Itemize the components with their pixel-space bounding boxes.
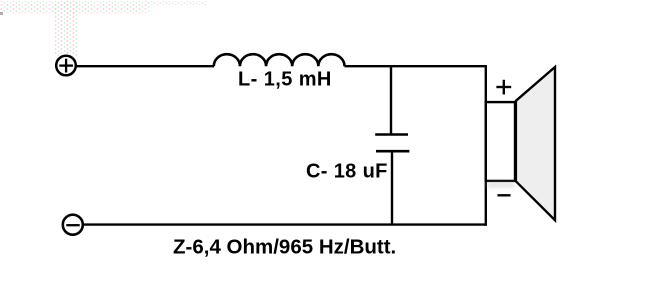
svg-text:C- 18 uF: C- 18 uF <box>306 160 388 182</box>
scan halftone band top <box>0 1 150 13</box>
speaker shadow under body <box>487 183 515 188</box>
wire top left <box>76 65 214 67</box>
svg-text:Z-6,4 Ohm/965 Hz/Butt.: Z-6,4 Ohm/965 Hz/Butt. <box>173 235 396 258</box>
wire capacitor branch upper <box>390 66 392 134</box>
terminal + (positive input) <box>56 56 76 76</box>
wire top right <box>345 65 488 67</box>
terminal - (negative input) <box>63 215 83 235</box>
scan halftone band vertical <box>55 1 78 56</box>
scan halftone band top sparse tail <box>150 1 207 5</box>
label speaker plus <box>496 80 511 95</box>
speaker LS1 driver body <box>486 102 515 181</box>
speaker LS1 cone <box>516 67 555 220</box>
svg-text:L- 1,5 mH: L- 1,5 mH <box>238 69 332 91</box>
capacitor C1 bottom plate <box>376 150 409 153</box>
wire bottom <box>83 223 488 225</box>
label speaker minus <box>498 194 511 196</box>
scan speck left edge <box>0 12 3 15</box>
wire capacitor branch lower <box>391 151 393 224</box>
inductor L1 coil <box>214 54 345 66</box>
capacitor C1 top plate <box>375 133 408 136</box>
wire right vertical branch <box>485 65 487 226</box>
